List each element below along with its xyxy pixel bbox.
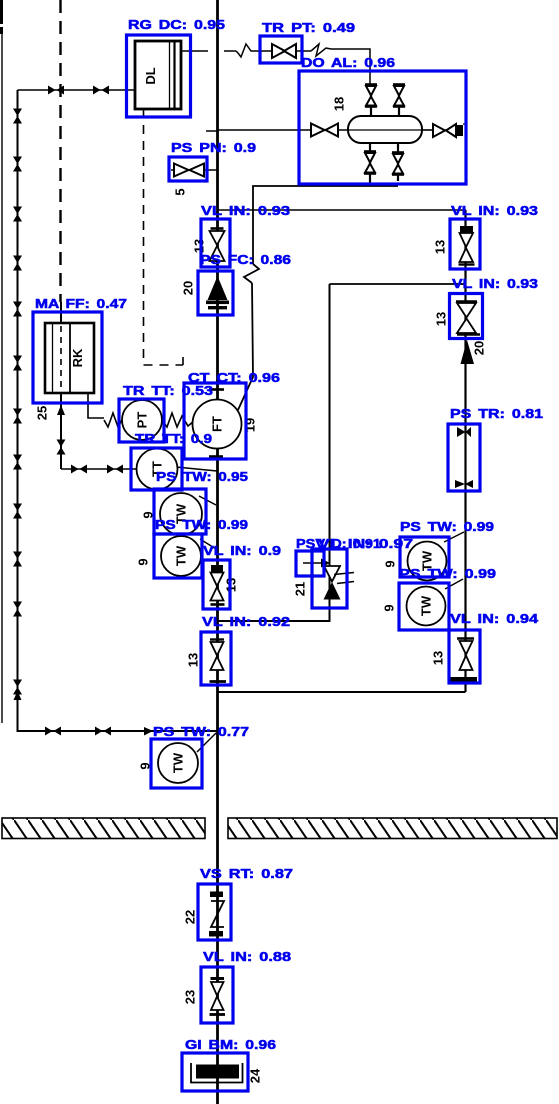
vessel DL	[135, 41, 181, 109]
bbox PS TW 0.99 left	[154, 534, 202, 578]
svg-text:DO AL: 0.96: DO AL: 0.96	[301, 55, 395, 70]
instrument TT	[137, 449, 218, 490]
valve X left manifold y=164	[13, 157, 22, 172]
instrument TW left 2	[161, 536, 216, 576]
bbox VL IN 0.9	[203, 560, 230, 609]
svg-text:PS TW: 0.99: PS TW: 0.99	[155, 517, 248, 532]
instrument PT	[122, 400, 162, 440]
bbox RG DC	[127, 35, 191, 117]
valve X left manifold y=214	[13, 207, 22, 222]
bbox TR PT	[260, 36, 302, 63]
svg-text:VL IN: 0.88: VL IN: 0.88	[203, 949, 291, 964]
stub PSV pilot arrow	[303, 559, 330, 568]
valve 13 main VL0.92	[210, 640, 227, 682]
bbox VS RT	[198, 884, 231, 940]
bbox PS TW 0.95	[154, 489, 206, 534]
instrument FT 19	[193, 400, 242, 449]
svg-text:VL IN: 0.97: VL IN: 0.97	[318, 536, 413, 551]
svg-text:VL IN: 0.92: VL IN: 0.92	[202, 614, 290, 629]
valve X left manifold y=609	[13, 602, 22, 617]
vessel 18 heat exchanger	[348, 116, 433, 143]
wire left manifold x=17.5	[18, 90, 218, 731]
bbox VL IN 0.94	[449, 630, 480, 683]
valve exchanger bottom-right	[392, 143, 404, 181]
wire RK feed vertical x=61	[60, 302, 62, 469]
svg-text:VS RT: 0.87: VS RT: 0.87	[200, 866, 293, 881]
valve pair on bottom header x=53	[45, 727, 61, 736]
silencer GI BM 24	[191, 1063, 243, 1083]
pipe mid column x=329.5	[218, 284, 330, 621]
squiggle RK to PT	[104, 413, 122, 427]
valve X on RK line	[57, 440, 66, 455]
valve PS PN bowtie 5	[174, 164, 204, 177]
svg-text:21: 21	[292, 582, 307, 596]
stub PS PN valve	[171, 169, 217, 171]
vessel RK 25	[45, 323, 94, 393]
svg-text:13: 13	[185, 653, 200, 667]
instrument TW bottom	[158, 733, 216, 783]
flow arrow on bottom header	[144, 727, 153, 736]
check valve PS FC 20 (filled cone)	[206, 276, 229, 309]
svg-text:13: 13	[430, 651, 445, 665]
svg-text:9: 9	[381, 604, 396, 611]
bbox VL IN 0.88	[201, 967, 233, 1023]
instrument TW left 1	[160, 493, 216, 535]
svg-text:25: 25	[34, 406, 49, 420]
wire to exchanger top	[331, 49, 370, 84]
valve 13 main VL0.9 (filled cap)	[211, 565, 225, 605]
wire return right column y=692	[218, 691, 466, 693]
svg-text:FT: FT	[209, 416, 224, 432]
valve X left manifold y=462	[13, 455, 22, 470]
valve pair on bottom header x=103	[95, 727, 111, 736]
valve exchanger top-right	[393, 84, 405, 116]
valve 13 right top (filled cap)	[459, 226, 475, 265]
svg-text:24: 24	[247, 1068, 262, 1083]
bbox PS TR	[448, 424, 480, 491]
wire exchanger inlet y=130	[206, 130, 348, 131]
valve pair on TT line x=79	[71, 465, 87, 474]
wall hatched right	[228, 818, 557, 839]
valve inlet bowtie	[311, 124, 338, 137]
wire return to FT	[238, 283, 253, 410]
svg-text:PS FC: 0.86: PS FC: 0.86	[200, 252, 291, 267]
svg-text:TW: TW	[173, 545, 188, 566]
pipe right column x=465.5	[464, 210, 466, 692]
dashed signal DL to CT	[144, 109, 184, 365]
wire DL outlet y=51	[181, 50, 236, 52]
svg-text:PS PN: 0.9: PS PN: 0.9	[171, 140, 256, 155]
svg-text:PS TR: 0.81: PS TR: 0.81	[450, 406, 543, 421]
bbox PS TW 0.99 right1	[400, 537, 449, 577]
valve X left manifold y=263	[13, 256, 22, 271]
valve 13 right second (X)	[456, 302, 480, 335]
bbox TR TT 0.53	[119, 399, 164, 442]
svg-text:MA FF: 0.47: MA FF: 0.47	[35, 296, 127, 311]
valve X left manifold y=363	[13, 356, 22, 371]
bbox PS FC	[198, 271, 233, 315]
valve exchanger top-left	[365, 84, 377, 116]
main pipe x=217.5	[216, 0, 219, 1104]
bbox TR TT 0.9	[131, 448, 182, 490]
wire exchanger bottom return y=186	[253, 186, 398, 264]
svg-text:GI BM: 0.96: GI BM: 0.96	[185, 1037, 276, 1052]
svg-text:9: 9	[382, 560, 397, 567]
union PS TR bottom mark	[455, 480, 473, 488]
bbox VL IN 0.93 left	[201, 219, 230, 267]
valve exchanger bottom-left	[364, 143, 376, 186]
flange bar above FT	[209, 388, 224, 391]
valve pair on header at x=101	[93, 86, 109, 95]
wire RK outlet to PT	[88, 393, 104, 418]
svg-text:PT: PT	[134, 412, 149, 429]
wire RK to TT y=469	[61, 468, 137, 470]
svg-text:TR TT: 0.53: TR TT: 0.53	[123, 383, 213, 398]
svg-text:PS TW: 0.99: PS TW: 0.99	[399, 566, 496, 581]
instrument TW right 2	[407, 579, 464, 626]
svg-text:TW: TW	[170, 752, 185, 773]
svg-text:RK: RK	[70, 348, 85, 367]
wire exchanger outlet	[422, 129, 458, 131]
valve X left manifold y=309	[13, 302, 22, 317]
bbox CT CT	[184, 383, 246, 459]
bbox PS TW 0.99 right2	[399, 583, 449, 630]
squiggle PT to FT	[162, 413, 194, 427]
svg-text:PS TW: 0.95: PS TW: 0.95	[156, 469, 248, 484]
break jog on return line	[244, 264, 259, 283]
border line left edge	[0, 0, 3, 24]
svg-text:5: 5	[172, 188, 187, 195]
svg-text:VL IN: 0.93: VL IN: 0.93	[201, 203, 290, 218]
svg-text:23: 23	[182, 990, 197, 1004]
flange bar below FT	[209, 455, 223, 458]
break jog on TR PT line	[311, 44, 331, 56]
svg-text:9: 9	[135, 558, 150, 565]
bbox VL IN 0.93 right2	[450, 294, 483, 339]
flow arrow 20 right column	[461, 340, 475, 364]
valve 13 right bottom	[450, 639, 477, 682]
bbox MA FF	[33, 312, 102, 403]
valve pair on TT line x=115	[107, 465, 123, 474]
valve TR PT bowtie	[262, 44, 311, 58]
svg-text:TR PT: 0.49: TR PT: 0.49	[262, 20, 355, 35]
instrument TW right 1	[408, 532, 465, 581]
bbox VL IN 0.92	[201, 632, 231, 685]
flow arrow up on left manifold	[14, 691, 22, 700]
damper VS RT 22	[209, 892, 224, 937]
svg-text:DL: DL	[143, 67, 158, 84]
valve X left manifold y=416	[13, 409, 22, 424]
valve 23	[210, 979, 226, 1015]
flow arrow up below RK	[57, 405, 65, 415]
svg-text:VL IN: 0.9: VL IN: 0.9	[203, 543, 281, 558]
bbox PSV small	[296, 551, 324, 576]
bbox VL IN 0.93 right1	[450, 219, 480, 269]
valve outlet bowtie	[433, 124, 466, 137]
bbox GI BM	[182, 1053, 248, 1091]
wire mid column branch y=284	[330, 283, 467, 285]
svg-text:RG DC: 0.95: RG DC: 0.95	[128, 17, 225, 32]
valve PSV 21	[324, 566, 355, 600]
valve 13 main top	[210, 229, 225, 262]
svg-text:20: 20	[471, 341, 486, 355]
valve X left manifold y=559	[13, 552, 22, 567]
bbox PS PN	[169, 157, 207, 181]
svg-text:VL IN: 0.94: VL IN: 0.94	[450, 611, 539, 626]
svg-text:20: 20	[180, 281, 195, 295]
dashed header line x=60	[59, 0, 61, 302]
svg-text:VL IN: 0.93: VL IN: 0.93	[451, 203, 538, 218]
valve X left manifold y=687	[13, 680, 22, 695]
svg-text:PS TW: 0.77: PS TW: 0.77	[153, 724, 249, 739]
valve X left manifold y=511	[13, 504, 22, 519]
wire feed right column y=210	[218, 209, 467, 211]
svg-text:18: 18	[331, 97, 346, 111]
svg-text:22: 22	[182, 910, 197, 924]
svg-text:13: 13	[432, 240, 447, 254]
svg-text:TR TT: 0.9: TR TT: 0.9	[135, 431, 212, 446]
svg-text:TW: TW	[418, 595, 433, 616]
bbox PSV large	[312, 549, 347, 608]
union PS TR top mark	[457, 427, 471, 437]
svg-text:13: 13	[433, 312, 448, 326]
squiggle on DL outlet	[236, 44, 262, 57]
wire top-left header y=90	[18, 89, 137, 91]
svg-text:VL IN: 0.93: VL IN: 0.93	[452, 276, 538, 291]
svg-text:PS TW: 0.99: PS TW: 0.99	[400, 519, 494, 534]
valve X left manifold y=116	[13, 109, 22, 124]
bbox PS TW 0.77	[151, 739, 202, 788]
valve pair on header at x=56	[48, 86, 64, 95]
wall hatched left	[2, 818, 205, 839]
bbox DO AL	[299, 71, 466, 184]
